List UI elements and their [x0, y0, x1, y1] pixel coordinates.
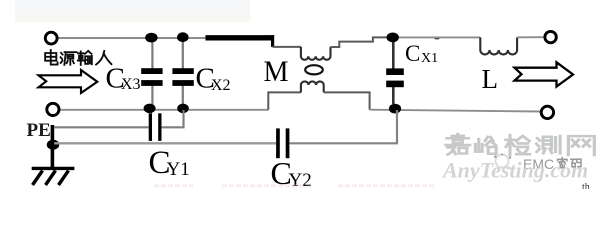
wire choke bottom exit	[324, 92, 370, 109]
wire CY2 branch right + riser	[289, 110, 397, 143]
wire top to inductor L	[393, 36, 481, 38]
junction dot bottom CX3	[144, 104, 156, 114]
capacitor CY2 plates	[276, 128, 280, 158]
capacitor CX2 plates	[172, 68, 193, 74]
wire L to output terminal	[518, 36, 546, 38]
wire bottom right segment	[370, 110, 541, 112]
svg-text:PE: PE	[27, 120, 51, 141]
wire step down to choke	[271, 35, 274, 47]
wire CY1 branch right + riser	[162, 110, 184, 127]
capacitor CX1 plates	[386, 68, 404, 75]
inductor L	[480, 37, 517, 54]
output block arrow	[515, 62, 574, 86]
svg-text:X1: X1	[421, 51, 438, 66]
wire bottom L2 left segment	[59, 109, 269, 111]
junction dot bottom CX1	[389, 104, 401, 114]
junction dot bottom CX2	[177, 104, 189, 114]
glyph 源	[61, 52, 77, 65]
label 电源输入 (drawn glyphs)	[45, 50, 111, 65]
icon specks	[494, 154, 511, 159]
faint pink marks	[154, 184, 193, 187]
terminal circle output L1	[545, 31, 556, 42]
glyph 检	[506, 135, 530, 155]
wire choke top exit staircase	[331, 37, 389, 47]
junction dot top CX3	[145, 33, 157, 43]
wire tick mark	[435, 37, 440, 40]
wire CY1 branch left	[54, 126, 149, 128]
input block arrow	[39, 70, 98, 93]
choke M top winding	[301, 47, 331, 60]
junction dot top CX2	[177, 32, 189, 42]
terminal circle output L2	[541, 106, 553, 118]
watermark magnifier icon	[494, 155, 512, 170]
terminal circle input L1	[45, 32, 57, 44]
capacitor CY1 plates	[149, 113, 152, 141]
capacitor CX3 plates	[141, 68, 162, 74]
PE vertical lead	[51, 125, 55, 168]
glyph 测	[536, 136, 560, 154]
watermark 嘉峪检测网 (drawn glyphs)	[446, 134, 595, 155]
light grey header block	[15, 0, 250, 22]
svg-text:L: L	[482, 64, 499, 94]
svg-text:C: C	[405, 41, 420, 66]
glyph 峪	[475, 137, 496, 154]
wire choke top entry	[273, 46, 301, 48]
wire top thick segment	[206, 35, 275, 40]
capacitor CX3 leads	[151, 39, 153, 69]
terminal circle input L2	[47, 103, 59, 115]
capacitor CX2 leads	[182, 39, 184, 69]
wire CY2 branch left	[54, 142, 276, 144]
capacitor CX1 leads	[392, 40, 395, 69]
glyph 密	[558, 157, 568, 167]
wire step up to choke bottom	[268, 92, 301, 109]
choke M core	[305, 65, 323, 74]
glyph 电	[45, 50, 57, 65]
glyph 入	[96, 51, 111, 65]
svg-text:X2: X2	[211, 77, 231, 94]
glyph 输	[78, 51, 92, 65]
junction dot PE	[47, 140, 59, 150]
svg-text:th: th	[582, 182, 590, 189]
glyph 网	[568, 136, 594, 155]
svg-text:Y1: Y1	[167, 159, 190, 180]
svg-text:M: M	[264, 55, 289, 88]
choke M bottom winding	[301, 81, 324, 92]
wire top L1 left segment	[57, 37, 206, 39]
svg-text:AnyTesting.com: AnyTesting.com	[441, 158, 588, 183]
ground symbol	[32, 168, 75, 185]
glyph 码	[571, 159, 581, 167]
junction dot top CX1	[387, 33, 399, 43]
svg-text:X3: X3	[121, 76, 141, 93]
glyph 嘉	[446, 134, 470, 154]
